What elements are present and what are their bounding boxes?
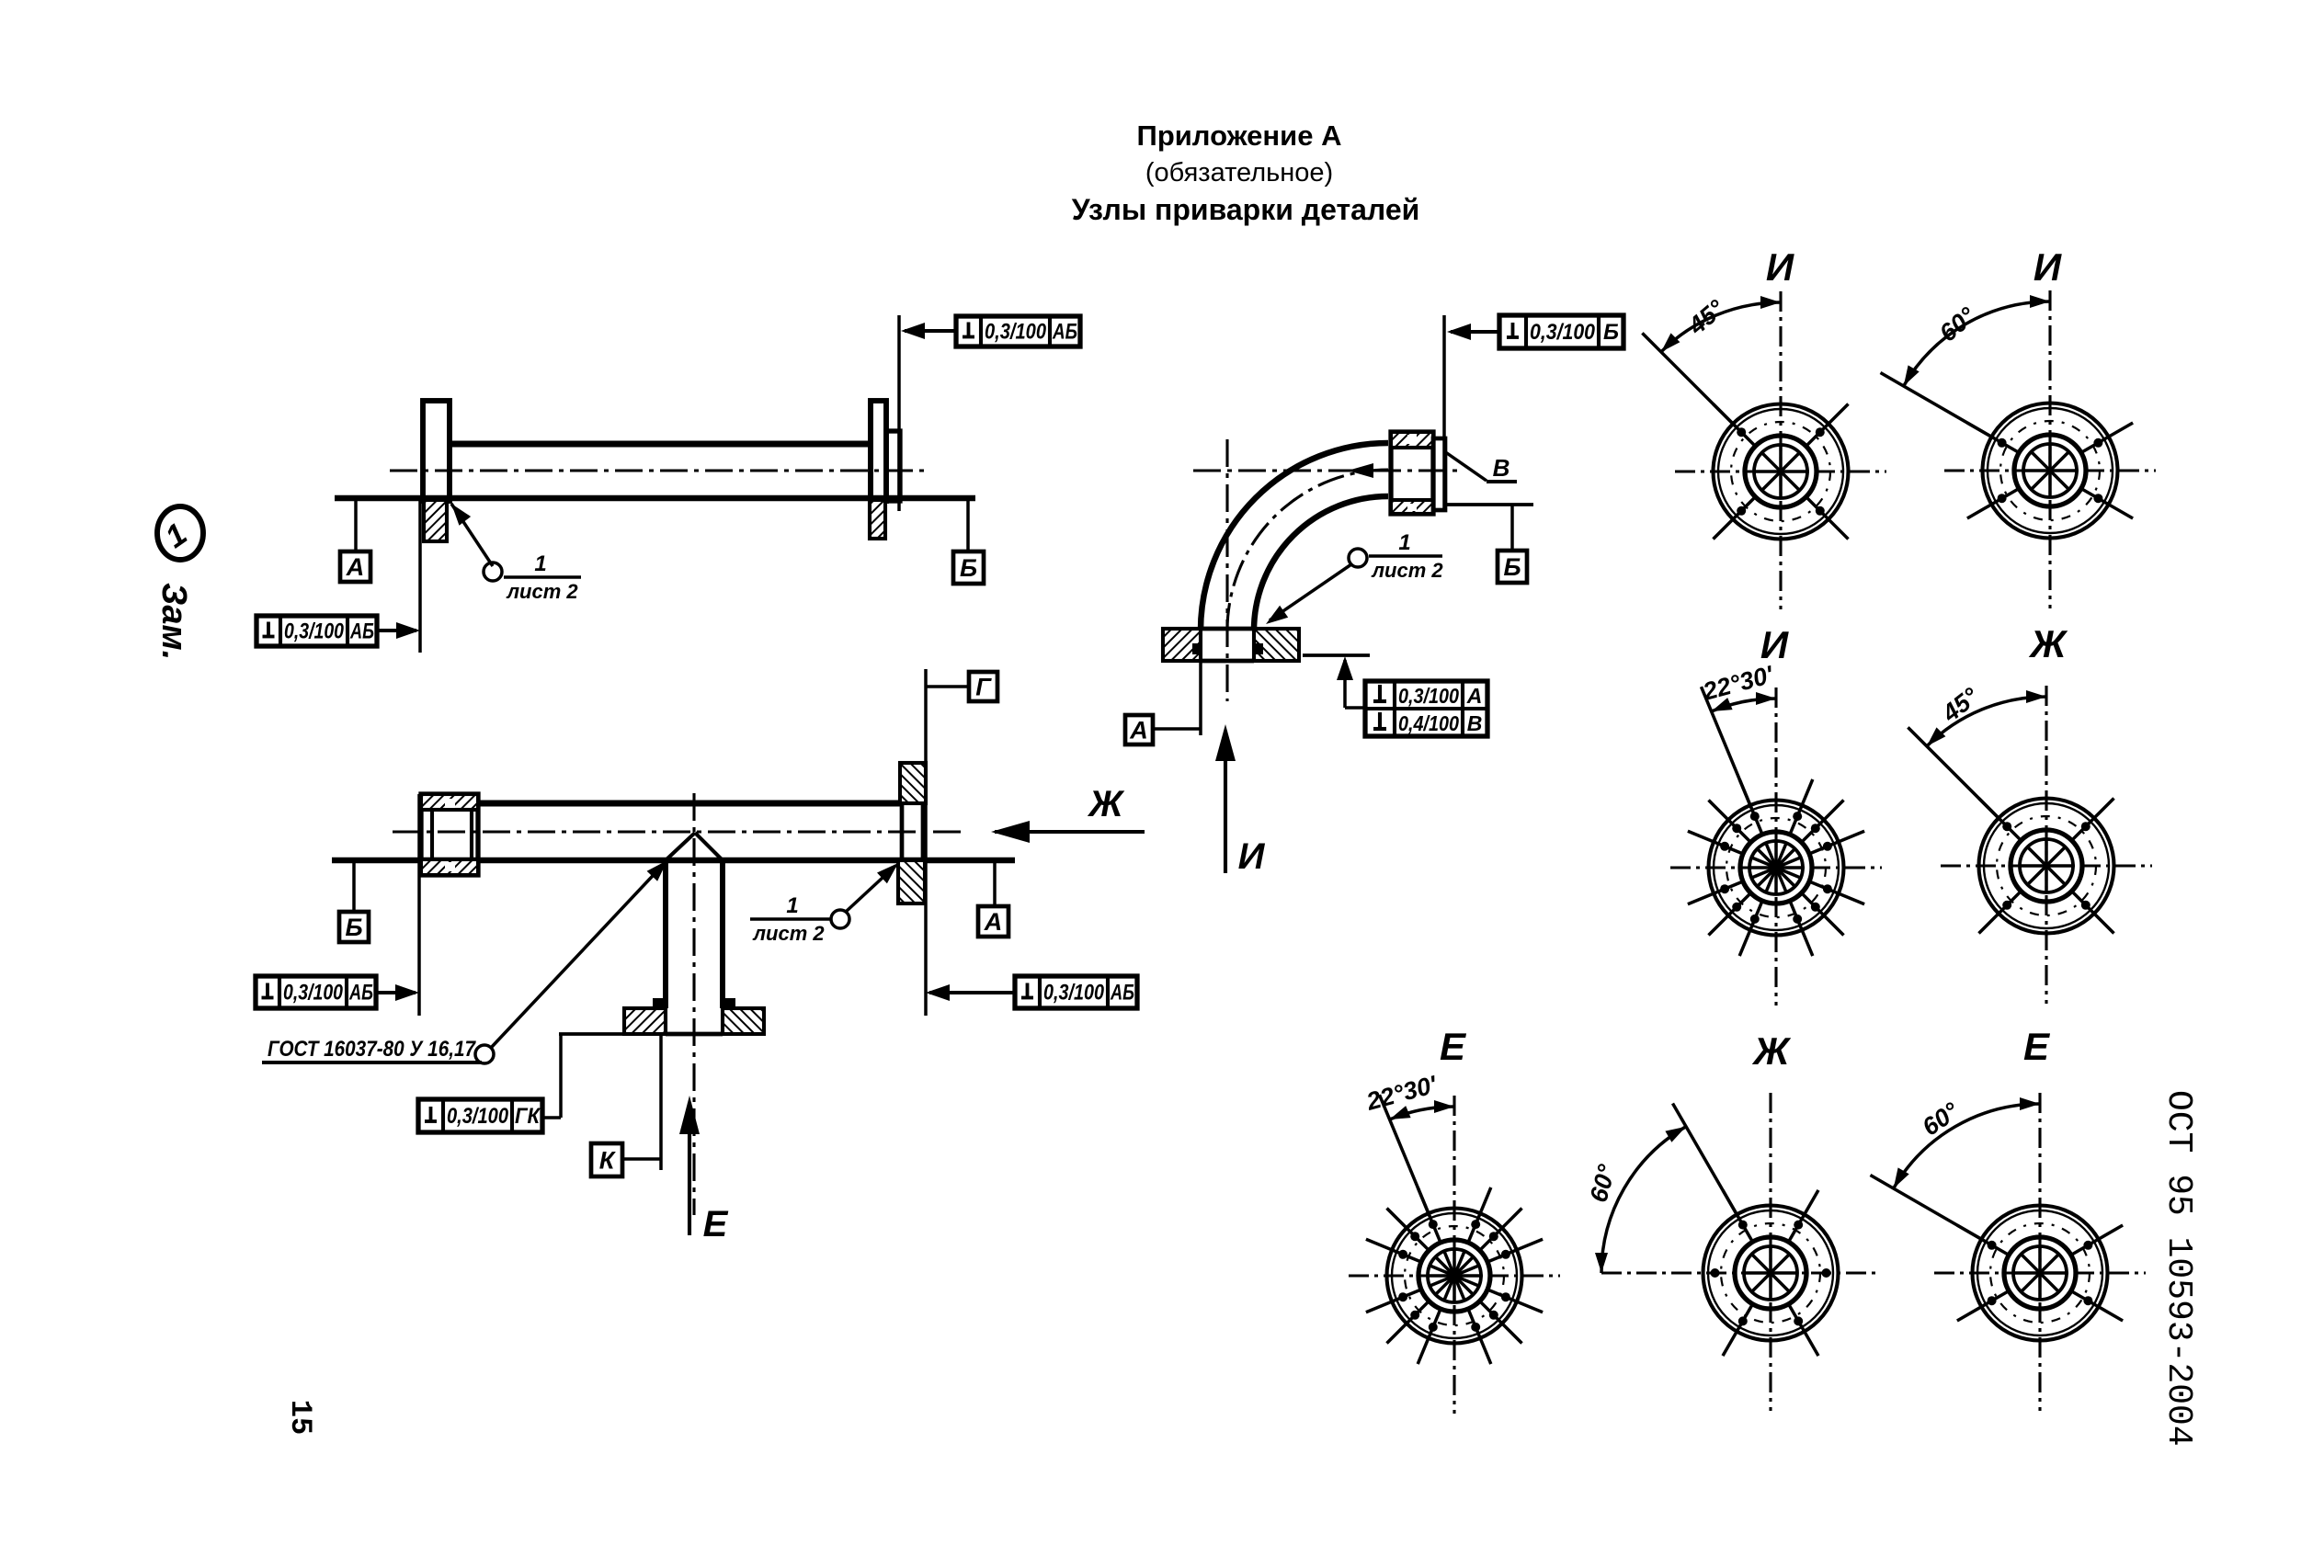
run pipe centerline <box>393 830 965 833</box>
branch flange datum line <box>559 1034 624 1118</box>
svg-text:0,3/100: 0,3/100 <box>1530 320 1596 345</box>
svg-text:ГОСТ 16037-80 У 16,17: ГОСТ 16037-80 У 16,17 <box>268 1037 476 1062</box>
elbow pipe inner arc <box>1254 496 1388 631</box>
right flange <box>871 401 900 501</box>
view arrow Ж <box>991 784 1145 843</box>
svg-text:И: И <box>2033 245 2062 289</box>
label Ж (row2 right) <box>2029 622 2068 665</box>
datum extension line left <box>418 496 422 653</box>
svg-text:И: И <box>1760 623 1789 666</box>
flange view Ж (row2 right, 45°) <box>1908 682 2152 1004</box>
label И (row1 left) <box>1766 245 1794 289</box>
flange view И (row1 left, 45°) <box>1642 291 1886 609</box>
svg-text:АБ: АБ <box>349 619 374 644</box>
weld seam section left (hatched) <box>424 500 447 541</box>
tee left flange (hatched bands) <box>421 794 478 875</box>
label И (row1 right) <box>2033 245 2062 289</box>
elbow vertical centerline <box>1225 439 1228 701</box>
svg-text:0,3/100: 0,3/100 <box>985 320 1047 345</box>
svg-text:В: В <box>1493 454 1510 482</box>
svg-text:(обязательное): (обязательное) <box>1145 158 1333 187</box>
flange view Е (row3 right, 60°) <box>1871 1093 2147 1411</box>
svg-text:Ж: Ж <box>1752 1029 1792 1073</box>
flange view Е (row3 left, 22°30) <box>1349 1070 1560 1414</box>
tolerance frame 0,3/100 АБ (tee left) <box>256 976 419 1008</box>
elbow horizontal centerline <box>1193 463 1462 478</box>
datum line B vertical <box>1442 315 1446 511</box>
leader to tolerance frame (bottom) <box>1337 656 1365 708</box>
page number 15 <box>283 1400 317 1435</box>
branch pipe centerline <box>692 793 695 1215</box>
svg-text:лист 2: лист 2 <box>506 580 578 603</box>
elbow centerline arc <box>1227 470 1388 631</box>
svg-text:лист 2: лист 2 <box>1371 559 1443 582</box>
svg-text:ОСТ 95 10593-2004: ОСТ 95 10593-2004 <box>2159 1090 2198 1447</box>
title: (обязательное) <box>1145 158 1333 187</box>
svg-text:15: 15 <box>283 1400 317 1435</box>
svg-text:АБ: АБ <box>1110 981 1134 1006</box>
tolerance frame 0,3/100 А / 0,4/100 В (two rows) <box>1365 681 1487 736</box>
svg-text:1: 1 <box>534 551 546 576</box>
svg-text:И: И <box>1766 245 1794 289</box>
run pipe body <box>332 803 1015 860</box>
datum frame А (elbow) <box>1125 715 1201 744</box>
pipe body (run) <box>335 444 975 498</box>
surface label В with leader <box>1444 451 1517 482</box>
svg-text:0,4/100: 0,4/100 <box>1398 711 1459 735</box>
datum line right (tee) <box>924 669 928 1016</box>
elbow bottom flange (hatched) <box>1163 629 1299 661</box>
svg-text:Е: Е <box>703 1204 729 1244</box>
svg-text:Приложение А: Приложение А <box>1137 119 1342 152</box>
svg-text:Зам.: Зам. <box>154 583 193 660</box>
branch weld prep <box>666 833 723 860</box>
svg-text:Ж: Ж <box>1087 784 1124 824</box>
weld pointer 1/лист 2 <box>451 504 581 603</box>
tolerance frame 0,3/100 ГК <box>418 1099 561 1132</box>
datum frame Б (elbow) <box>1446 505 1533 583</box>
tee right flange (hatched) <box>898 763 926 903</box>
svg-text:А: А <box>984 908 1003 936</box>
datum line left (tee) <box>417 794 421 1016</box>
margin revision mark: circled 1 <box>157 506 203 560</box>
weld seam section right (hatched) <box>870 500 885 539</box>
svg-text:Ж: Ж <box>2029 622 2068 665</box>
svg-text:АБ: АБ <box>348 981 373 1006</box>
margin note: Зам. <box>154 583 193 660</box>
svg-text:0,3/100: 0,3/100 <box>1043 981 1105 1006</box>
elbow pipe outer arc <box>1201 443 1388 631</box>
flange view И (row1 right, 60°) <box>1881 290 2157 608</box>
weld fillets at bottom flange <box>1192 643 1263 654</box>
svg-text:А: А <box>1129 717 1148 744</box>
svg-text:И: И <box>1238 836 1266 877</box>
flange view Ж (row3 middle, 60°) <box>1585 1093 1876 1411</box>
datum line bottom left <box>1199 661 1202 735</box>
svg-text:Узлы приварки деталей: Узлы приварки деталей <box>1072 193 1420 226</box>
weld pointer 1/лист 2 (tee) <box>750 863 898 945</box>
svg-text:1: 1 <box>1398 530 1410 555</box>
tolerance frame 0,3/100 АБ (tee right) <box>926 976 1137 1008</box>
standard number ОСТ 95 10593-2004 (vertical) <box>2159 1090 2198 1447</box>
svg-text:Е: Е <box>2023 1025 2051 1068</box>
tolerance frame 0,3/100 АБ (top right) <box>901 316 1080 347</box>
svg-text:1: 1 <box>786 893 798 918</box>
ГОСТ 16037-80 weld note <box>262 860 667 1063</box>
svg-text:0,3/100: 0,3/100 <box>447 1104 509 1129</box>
svg-text:0,3/100: 0,3/100 <box>283 981 344 1006</box>
svg-text:Е: Е <box>1440 1025 1467 1068</box>
weld fillets at branch flange <box>653 998 735 1010</box>
left flange <box>423 401 450 501</box>
svg-text:Г: Г <box>975 674 992 701</box>
baseline right of bottom flange <box>1303 653 1370 657</box>
svg-text:0,3/100: 0,3/100 <box>1398 684 1459 708</box>
view arrow Е <box>679 1096 729 1244</box>
label Ж (row3 middle) <box>1752 1029 1792 1073</box>
datum frame К <box>591 1034 661 1176</box>
svg-text:Б: Б <box>345 914 362 941</box>
svg-text:0,3/100: 0,3/100 <box>284 619 345 644</box>
svg-text:ГК: ГК <box>515 1104 541 1129</box>
datum frame А (tee) <box>978 860 1008 937</box>
title: Узлы приварки деталей <box>1072 193 1420 226</box>
pipe centerline <box>390 469 926 472</box>
elbow right flange (hatched) <box>1391 432 1445 514</box>
weld pointer 1/лист 2 (elbow) <box>1266 530 1443 624</box>
label И (row2 left) <box>1760 623 1789 666</box>
svg-text:лист 2: лист 2 <box>752 922 825 945</box>
branch pipe body <box>666 860 723 1008</box>
svg-text:А: А <box>346 553 365 581</box>
branch flange (hatched) <box>624 1008 764 1034</box>
tolerance frame 0,3/100 Б (top) <box>1447 315 1623 348</box>
svg-text:Б: Б <box>960 554 977 582</box>
svg-text:К: К <box>599 1147 617 1175</box>
datum frame Б (tee) <box>339 860 369 942</box>
svg-text:Б: Б <box>1503 553 1521 581</box>
svg-text:АБ: АБ <box>1052 320 1077 345</box>
datum extension line right <box>897 315 901 511</box>
view arrow И <box>1215 724 1266 877</box>
datum frame Г (tee) <box>926 672 997 701</box>
title: Приложение А <box>1137 119 1342 152</box>
svg-text:Б: Б <box>1603 320 1619 345</box>
flange view И (row2 left, 22°30) <box>1670 660 1882 1006</box>
datum frame Б <box>953 498 984 584</box>
label Е (row3 left) <box>1440 1025 1467 1068</box>
datum frame A <box>340 498 370 582</box>
tolerance frame 0,3/100 АБ (left) <box>256 616 420 646</box>
label Е (row3 right) <box>2023 1025 2051 1068</box>
svg-text:А: А <box>1466 684 1483 708</box>
svg-text:В: В <box>1467 711 1483 735</box>
